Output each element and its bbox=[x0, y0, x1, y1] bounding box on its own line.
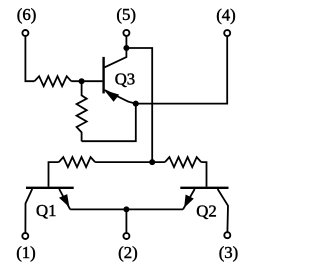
transistor Q3 emitter lead bbox=[105, 90, 136, 104]
Q3 emitter arrow (PNP, points to base bar) bbox=[104, 90, 119, 102]
wire pin6 to resistor R1 bbox=[25, 37, 34, 82]
wire R1 to Q3 base bbox=[71, 80, 102, 82]
transistor Q2 collector lead to pin3 bbox=[218, 189, 228, 232]
Q2 emitter arrow bbox=[184, 195, 194, 208]
junction node Q3 emitter bbox=[133, 101, 139, 107]
terminal pin (1) bbox=[22, 233, 28, 239]
wire Q1 base to resistor R3 bbox=[49, 162, 59, 187]
svg-text:(5): (5) bbox=[116, 5, 136, 24]
wire pin4 to Q3 emitter node bbox=[136, 37, 227, 104]
terminal pin (2) bbox=[123, 233, 129, 239]
wire pin2 stem bbox=[125, 209, 127, 232]
svg-text:Q3: Q3 bbox=[115, 70, 136, 89]
wire R2 bottom to emitter node of Q3 bbox=[82, 104, 136, 142]
terminal pin (6) bbox=[22, 30, 28, 36]
svg-text:(4): (4) bbox=[216, 5, 236, 24]
wire pin5 node to center base node bbox=[126, 48, 152, 162]
wire R4 to Q2 base bbox=[201, 162, 206, 187]
svg-text:(1): (1) bbox=[16, 243, 36, 262]
junction node Q3 base bbox=[79, 78, 85, 84]
junction node pin2 bbox=[123, 206, 129, 212]
junction node below pin5 bbox=[123, 45, 129, 51]
svg-text:(3): (3) bbox=[219, 243, 239, 262]
resistor R1 (base resistor of Q3, horizontal) bbox=[35, 76, 72, 86]
svg-text:(6): (6) bbox=[17, 5, 37, 24]
Q1 emitter arrow bbox=[59, 194, 69, 207]
wire R3 to center base node bbox=[95, 161, 165, 163]
transistor Q1 emitter lead bbox=[59, 189, 70, 209]
transistor Q1 collector lead to pin1 bbox=[25, 189, 32, 232]
transistor Q2 emitter lead bbox=[183, 189, 195, 209]
svg-text:(2): (2) bbox=[118, 243, 138, 262]
transistor Q3 collector lead bbox=[105, 48, 127, 67]
transistor Q3 base bar bbox=[102, 57, 104, 94]
svg-text:Q2: Q2 bbox=[196, 201, 217, 220]
resistor R2 (vertical, base-emitter of Q3) bbox=[77, 81, 87, 141]
wire pin5 stem bbox=[125, 36, 127, 48]
terminal pin (4) bbox=[224, 30, 230, 36]
emitter rail Q1-Q2 bbox=[70, 208, 183, 210]
svg-text:Q1: Q1 bbox=[36, 201, 57, 220]
junction node center bases bbox=[149, 159, 155, 165]
resistor R4 (base resistor of Q2, horizontal) bbox=[165, 157, 201, 167]
transistor Q1 base bar bbox=[26, 187, 74, 189]
resistor R3 (base resistor of Q1, horizontal) bbox=[59, 157, 95, 167]
transistor Q2 base bar bbox=[180, 187, 228, 189]
terminal pin (5) bbox=[123, 30, 129, 36]
terminal pin (3) bbox=[224, 232, 230, 238]
